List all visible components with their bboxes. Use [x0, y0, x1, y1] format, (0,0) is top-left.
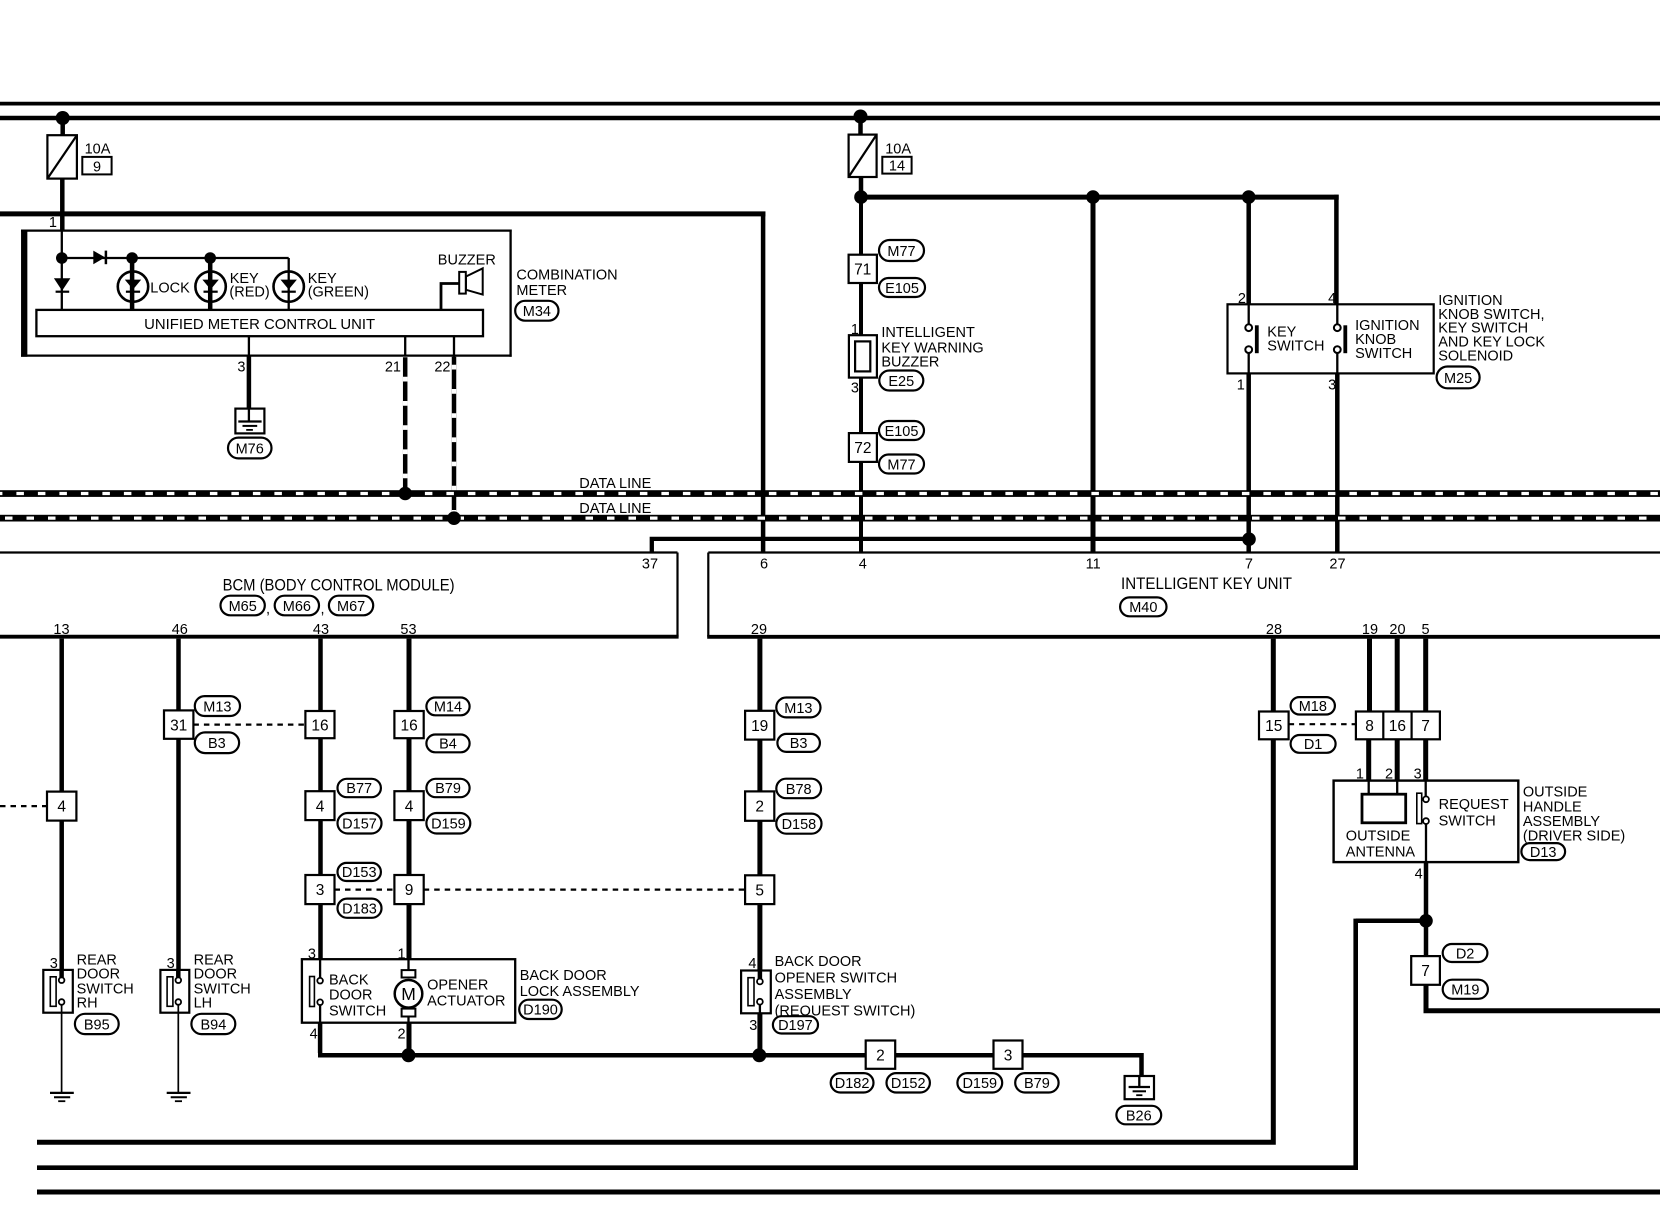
- wire stub left from junction: [1356, 919, 1426, 924]
- svg-text:ASSEMBLY: ASSEMBLY: [775, 987, 852, 1003]
- svg-text:28: 28: [1266, 622, 1282, 638]
- feed line to combination meter: [0, 211, 765, 216]
- svg-text:4: 4: [57, 799, 66, 816]
- connector 71: [849, 255, 877, 283]
- svg-text:B3: B3: [208, 736, 226, 752]
- LED KEY RED: [195, 258, 225, 311]
- svg-text:16: 16: [311, 717, 328, 734]
- svg-text:B78: B78: [786, 782, 812, 798]
- svg-text:37: 37: [642, 557, 658, 573]
- svg-text:ANTENNA: ANTENNA: [1346, 845, 1416, 861]
- svg-text:D2: D2: [1456, 946, 1475, 962]
- svg-text:D190: D190: [523, 1003, 558, 1019]
- connector oval D152: [887, 1073, 930, 1092]
- svg-text:6: 6: [760, 557, 768, 573]
- svg-text:SWITCH: SWITCH: [1267, 339, 1324, 355]
- connector oval E105 (lower): [879, 421, 924, 440]
- connector oval D153: [338, 863, 381, 881]
- svg-text:M77: M77: [887, 244, 915, 260]
- wire key unit pin 28 down and left to page edge: [37, 639, 1273, 1143]
- ignition knob switch contact: [1334, 304, 1347, 373]
- connector 4 (pin13 line): [47, 792, 76, 821]
- svg-text:D157: D157: [342, 817, 377, 833]
- connector 15: [1259, 712, 1289, 740]
- wire connector 7 to page right edge: [1426, 985, 1660, 1011]
- wire connector 8 to antenna pin 1: [1366, 739, 1371, 780]
- svg-text:SWITCH: SWITCH: [329, 1003, 386, 1019]
- label REAR DOOR SWITCH LH: [194, 953, 251, 1012]
- connector 4 (pin43 line): [305, 791, 334, 820]
- wire connector 7 to request switch pin 3: [1423, 739, 1428, 780]
- svg-text:M25: M25: [1444, 371, 1472, 387]
- svg-text:B3: B3: [790, 736, 808, 752]
- svg-text:71: 71: [854, 262, 871, 279]
- svg-text:2: 2: [755, 799, 764, 816]
- connector oval D183: [338, 899, 382, 918]
- connector oval E25: [879, 371, 923, 391]
- label REAR DOOR SWITCH RH: [77, 953, 134, 1012]
- svg-text:RH: RH: [77, 995, 98, 1011]
- wire key switch pin 1 down to key unit pin 7: [1246, 373, 1251, 552]
- connector oval D159: [426, 813, 470, 834]
- svg-text:ACTUATOR: ACTUATOR: [427, 993, 505, 1009]
- svg-text:BACK DOOR: BACK DOOR: [775, 954, 862, 970]
- svg-text:D197: D197: [778, 1018, 813, 1034]
- svg-text:22: 22: [434, 360, 450, 376]
- svg-text:DOOR: DOOR: [77, 967, 121, 983]
- connector 31: [164, 710, 193, 738]
- wire key unit pin 20 down: [1395, 639, 1400, 712]
- svg-text:OUTSIDE: OUTSIDE: [1346, 829, 1411, 845]
- svg-text:3: 3: [749, 1018, 757, 1034]
- svg-text:4: 4: [310, 1027, 318, 1043]
- connector oval B77: [338, 779, 381, 797]
- wire key unit pin 5 down: [1423, 639, 1428, 712]
- connector oval E105 (upper): [879, 278, 925, 297]
- wire pin 3 to ground M76: [247, 356, 252, 410]
- svg-text:5: 5: [1421, 622, 1429, 638]
- svg-text:D159: D159: [431, 817, 466, 833]
- wire branch corner down to ignition knob switch pin 4: [1334, 195, 1339, 305]
- fuse number box 9: [82, 157, 111, 175]
- svg-text:1: 1: [1237, 377, 1245, 393]
- connector oval M65: [221, 596, 265, 616]
- connector 3 (pin43 line): [305, 875, 334, 904]
- connector oval D1: [1291, 735, 1336, 753]
- svg-text:M40: M40: [1129, 600, 1157, 616]
- svg-text:B94: B94: [200, 1017, 226, 1033]
- wire bus to fuse 14: [858, 118, 863, 136]
- label INTELLIGENT KEY WARNING BUZZER: [881, 325, 983, 371]
- junction dot pin22 on data line 2: [447, 511, 461, 525]
- dashed link 3 to 9: [335, 888, 395, 890]
- data line 2: [0, 515, 1660, 522]
- connector oval D190: [519, 1000, 562, 1019]
- svg-text:43: 43: [313, 622, 329, 638]
- svg-text:D158: D158: [782, 817, 817, 833]
- wire lock assembly pin 4 down: [318, 1023, 323, 1053]
- wire BCM pin 46 down: [176, 639, 181, 970]
- ground (RH): [50, 1093, 74, 1101]
- svg-text:2: 2: [1238, 291, 1246, 307]
- connector oval M34: [515, 301, 558, 321]
- svg-text:M18: M18: [1299, 699, 1327, 715]
- svg-text:M13: M13: [203, 699, 231, 715]
- back door opener switch assembly: [741, 971, 771, 1014]
- svg-text:E105: E105: [885, 281, 919, 297]
- connector oval D13: [1521, 843, 1565, 861]
- label IGNITION KNOB SWITCH, KEY SWITCH AND KEY LOCK SOLENOID: [1438, 293, 1545, 365]
- svg-text:E25: E25: [888, 374, 914, 390]
- rear door switch LH: [160, 970, 189, 1013]
- svg-text:3: 3: [316, 882, 325, 899]
- svg-text:14: 14: [889, 159, 905, 175]
- svg-text:20: 20: [1389, 622, 1405, 638]
- svg-text:M19: M19: [1451, 983, 1479, 999]
- svg-text:46: 46: [172, 622, 188, 638]
- wire switch RH to ground: [61, 1005, 63, 1093]
- shielded wire pin 21 to data line 1: [403, 357, 408, 494]
- svg-text:29: 29: [751, 622, 767, 638]
- pin 3 wire (meter internal): [248, 336, 250, 357]
- svg-text:M65: M65: [229, 599, 257, 615]
- connector oval D197: [773, 1016, 818, 1034]
- svg-text:INTELLIGENT KEY UNIT: INTELLIGENT KEY UNIT: [1121, 574, 1292, 593]
- junction dot on bus at fuse 9: [56, 111, 70, 125]
- wire opener switch pin 3 down: [757, 1013, 762, 1055]
- svg-text:METER: METER: [516, 283, 567, 299]
- svg-text:19: 19: [1362, 622, 1378, 638]
- svg-text:15: 15: [1265, 718, 1282, 735]
- svg-text:8: 8: [1365, 718, 1374, 735]
- svg-text:SWITCH: SWITCH: [1439, 813, 1496, 829]
- connector 2 (ground run): [866, 1041, 896, 1069]
- connector oval D158: [776, 814, 821, 834]
- power bus line 1: [0, 102, 1660, 106]
- wire lock assembly pin 2 down: [407, 1023, 412, 1056]
- svg-text:UNIFIED METER CONTROL UNIT: UNIFIED METER CONTROL UNIT: [144, 317, 375, 333]
- connector oval D157: [338, 813, 382, 834]
- svg-text:M14: M14: [434, 700, 462, 716]
- label OUTSIDE HANDLE ASSEMBLY (DRIVER SIDE): [1523, 784, 1625, 844]
- wire down-left to page edge (lower): [37, 919, 1356, 1168]
- svg-text:4: 4: [1415, 867, 1423, 883]
- connector oval M76: [228, 438, 272, 459]
- request switch contact: [1417, 781, 1429, 863]
- zener diode down at x62: [54, 258, 71, 311]
- connector 2 (pin29 line): [745, 791, 774, 820]
- svg-text:BACK: BACK: [329, 972, 369, 988]
- wire fuse 9 to feed line: [60, 179, 65, 214]
- svg-text:D153: D153: [342, 865, 377, 881]
- ground M76: [235, 409, 264, 434]
- svg-text:(GREEN): (GREEN): [308, 285, 369, 301]
- svg-text:LOCK: LOCK: [150, 281, 190, 297]
- svg-text:9: 9: [93, 159, 101, 175]
- svg-text:D152: D152: [891, 1076, 926, 1092]
- LED LOCK: [118, 258, 148, 311]
- wire key unit pin 29 down: [757, 639, 762, 971]
- pin 22 wire (meter internal): [453, 336, 455, 357]
- svg-text:BACK DOOR: BACK DOOR: [520, 968, 607, 984]
- wire BCM pin 43 down: [318, 639, 323, 960]
- unified meter control unit bar: [36, 310, 483, 336]
- svg-text:B77: B77: [346, 781, 372, 797]
- svg-text:B4: B4: [439, 737, 457, 753]
- junction dot above LOCK LED: [126, 252, 138, 264]
- wire BCM pin 53 down: [407, 639, 412, 960]
- svg-text:INTELLIGENT: INTELLIGENT: [881, 325, 975, 341]
- dashed link 9 to 5: [424, 888, 745, 890]
- connector oval M14: [426, 698, 469, 716]
- junction dot pin 2 ground run: [402, 1048, 416, 1062]
- LED KEY GREEN: [274, 258, 304, 311]
- connector oval B26: [1116, 1106, 1161, 1125]
- svg-text:DATA LINE: DATA LINE: [579, 501, 651, 517]
- svg-text:1: 1: [49, 215, 57, 231]
- svg-text:DATA LINE: DATA LINE: [579, 476, 651, 492]
- svg-text:OPENER SWITCH: OPENER SWITCH: [775, 971, 897, 987]
- wire branch to key switch pin 2: [1246, 197, 1251, 304]
- wire feed line down to intelligent key unit pin 6: [761, 212, 766, 553]
- connector 9: [394, 875, 423, 904]
- bottom rail to other page: [37, 1190, 1660, 1195]
- wire ground run down to B26: [1139, 1053, 1144, 1077]
- svg-text:9: 9: [405, 882, 414, 899]
- label COMBINATION METER: [516, 268, 617, 299]
- svg-text:3: 3: [237, 360, 245, 376]
- junction dot pin21 on data line 1: [398, 487, 412, 501]
- svg-text:10A: 10A: [85, 141, 111, 157]
- connector oval M40: [1120, 597, 1166, 616]
- ground B26: [1125, 1076, 1154, 1099]
- svg-text:DOOR: DOOR: [329, 988, 373, 1004]
- svg-text:7: 7: [1245, 557, 1253, 573]
- label KEY SWITCH: [1267, 325, 1324, 355]
- connector oval D2: [1443, 944, 1488, 962]
- label BACK DOOR OPENER SWITCH ASSEMBLY (REQUEST SWITCH): [775, 954, 916, 1019]
- svg-text:3: 3: [1004, 1047, 1013, 1064]
- dashed link 31 to 16: [193, 723, 305, 725]
- label OPENER ACTUATOR: [427, 977, 505, 1009]
- svg-text:OPENER: OPENER: [427, 977, 488, 993]
- wire into antenna (pin1): [1368, 781, 1370, 795]
- intelligent key unit box: [707, 553, 1660, 637]
- svg-text:LOCK ASSEMBLY: LOCK ASSEMBLY: [520, 984, 640, 1000]
- svg-text:D13: D13: [1530, 845, 1557, 861]
- svg-text:BUZZER: BUZZER: [881, 355, 939, 371]
- connector 72: [849, 433, 877, 462]
- svg-text:M67: M67: [337, 599, 365, 615]
- svg-text:M34: M34: [523, 304, 551, 320]
- svg-text:M13: M13: [784, 701, 812, 717]
- wire ignition knob pin 3 down to key unit pin 27: [1335, 373, 1340, 552]
- svg-text:4: 4: [1328, 291, 1336, 307]
- connector 4 (pin53 line): [394, 791, 423, 820]
- svg-text:M: M: [401, 984, 416, 1004]
- ground wire run along y1055: [318, 1053, 1142, 1058]
- pin 21 wire (meter internal): [404, 336, 406, 357]
- svg-text:4: 4: [405, 798, 414, 815]
- svg-text:,: ,: [321, 602, 325, 618]
- junction dot on bus at fuse 14: [854, 110, 868, 124]
- label BACK DOOR LOCK ASSEMBLY: [520, 968, 640, 1000]
- svg-text:DOOR: DOOR: [194, 967, 238, 983]
- connector oval D182: [831, 1073, 874, 1092]
- svg-text:,: ,: [266, 602, 270, 618]
- shielded wire pin 22 to data line 2: [452, 357, 457, 518]
- junction dot at x1248.7: [1242, 190, 1256, 204]
- svg-text:4: 4: [859, 557, 867, 573]
- back door switch contact: [310, 959, 323, 1023]
- junction dot below handle assembly: [1419, 914, 1433, 928]
- label OUTSIDE ANTENNA: [1346, 829, 1416, 861]
- svg-text:D159: D159: [962, 1076, 997, 1092]
- wire pin1 inside meter: [61, 230, 63, 258]
- connector 16 (pin43 line): [305, 711, 334, 738]
- dashed link 15 to 8: [1289, 723, 1356, 725]
- svg-text:(RED): (RED): [229, 285, 269, 301]
- wire handle pin 4 down to connector 7: [1424, 862, 1429, 956]
- wire key unit pin 19 down: [1367, 639, 1372, 712]
- svg-text:SOLENOID: SOLENOID: [1438, 349, 1513, 365]
- connector oval M66: [275, 596, 319, 616]
- connector oval D159 (ground run): [957, 1073, 1002, 1092]
- junction dot at x861: [854, 190, 868, 204]
- connector 7 (D2/M19): [1411, 956, 1440, 985]
- junction dot pin 3 ground run: [752, 1048, 766, 1062]
- connector 3 (ground run): [994, 1041, 1023, 1069]
- ground (LH): [167, 1093, 191, 1101]
- connector oval M19: [1443, 980, 1488, 999]
- svg-text:LH: LH: [194, 995, 213, 1011]
- connector oval B78: [776, 779, 821, 799]
- svg-text:5: 5: [755, 882, 764, 899]
- wire bus to fuse 9: [60, 118, 65, 136]
- diode D (series, pointing right): [93, 251, 106, 265]
- svg-text:7: 7: [1421, 963, 1430, 980]
- wire into antenna (pin2): [1396, 781, 1398, 795]
- connector oval M67: [329, 596, 373, 616]
- wire x861 down to intelligent key unit pin 4: [859, 197, 863, 552]
- svg-text:D183: D183: [342, 902, 377, 918]
- svg-text:BCM (BODY CONTROL MODULE): BCM (BODY CONTROL MODULE): [223, 576, 455, 595]
- svg-text:21: 21: [385, 360, 401, 376]
- BCM box: [0, 553, 679, 637]
- rear door switch RH: [43, 970, 73, 1013]
- connector oval B4: [426, 735, 469, 753]
- svg-text:3: 3: [1328, 377, 1336, 393]
- connector oval M77 (upper): [879, 240, 924, 261]
- connector 16 (pin53 line): [394, 711, 423, 738]
- svg-text:D182: D182: [835, 1076, 870, 1092]
- fuse 14 (10A): [849, 135, 877, 177]
- buzzer wire: [441, 284, 459, 312]
- buzzer symbol: [459, 268, 483, 294]
- svg-text:53: 53: [400, 622, 416, 638]
- combination meter box M34: [21, 230, 512, 357]
- svg-text:REQUEST: REQUEST: [1439, 797, 1509, 813]
- label KEY (RED): [229, 271, 269, 301]
- internal wire across LED tops: [62, 257, 289, 259]
- svg-text:2: 2: [876, 1047, 885, 1064]
- connector 5: [745, 875, 774, 904]
- wire connector 16 to antenna pin 2: [1395, 739, 1400, 780]
- svg-text:B79: B79: [1024, 1076, 1050, 1092]
- svg-text:11: 11: [1086, 557, 1101, 573]
- svg-text:19: 19: [751, 718, 768, 735]
- label REQUEST SWITCH: [1439, 797, 1509, 830]
- wire fuse 14 to branch node: [859, 177, 864, 197]
- branch feed line (ignition): [861, 195, 1339, 200]
- svg-text:16: 16: [1389, 718, 1406, 735]
- svg-text:M77: M77: [887, 457, 915, 473]
- junction dot at x1093: [1086, 190, 1100, 204]
- svg-text:10A: 10A: [885, 141, 911, 157]
- svg-text:B95: B95: [84, 1017, 110, 1033]
- connector oval B3: [195, 732, 239, 753]
- outside antenna element: [1362, 794, 1406, 823]
- svg-text:M66: M66: [283, 599, 311, 615]
- svg-text:HANDLE: HANDLE: [1523, 800, 1582, 816]
- wire BCM pin 13 down: [59, 639, 64, 970]
- connector oval B95: [75, 1014, 119, 1034]
- junction node at diode branch: [56, 252, 68, 264]
- fuse 9 (10A): [47, 135, 77, 178]
- back door lock assembly box D190: [302, 959, 515, 1023]
- svg-text:16: 16: [400, 717, 417, 734]
- opener actuator motor: [395, 959, 423, 1023]
- key switch contact: [1245, 304, 1258, 373]
- power bus line 2: [0, 116, 1660, 121]
- label BACK DOOR SWITCH: [329, 972, 386, 1019]
- connector row 8 16 7: [1356, 712, 1440, 740]
- ignition knob switch / key switch box M25: [1228, 304, 1434, 373]
- svg-text:BUZZER: BUZZER: [438, 253, 496, 269]
- connector oval B94: [191, 1014, 235, 1034]
- connector oval B79: [426, 779, 469, 797]
- connector oval M18: [1291, 697, 1335, 715]
- wire pin 1 into combination meter: [60, 214, 65, 231]
- svg-text:31: 31: [170, 717, 187, 734]
- wire switch LH to ground: [177, 1005, 179, 1093]
- dashed spur into connector 4: [0, 805, 47, 807]
- svg-text:27: 27: [1329, 557, 1345, 573]
- svg-text:E105: E105: [885, 424, 919, 440]
- intelligent key warning buzzer: [849, 335, 877, 377]
- svg-text:B79: B79: [435, 781, 461, 797]
- data line 1: [0, 490, 1660, 497]
- junction dot above KEY RED LED: [204, 252, 216, 264]
- svg-text:SWITCH: SWITCH: [1355, 346, 1412, 362]
- label IGNITION KNOB SWITCH: [1355, 318, 1419, 362]
- label KEY (GREEN): [308, 271, 369, 301]
- svg-text:4: 4: [316, 798, 325, 815]
- connector oval M13 (pin29): [776, 698, 820, 718]
- svg-text:13: 13: [53, 622, 69, 638]
- svg-text:72: 72: [854, 440, 871, 457]
- connector 19: [745, 711, 774, 740]
- wire BCM pin 37 to pin-7 node: [652, 539, 1249, 553]
- svg-text:3: 3: [851, 380, 859, 396]
- connector oval B3 (pin29): [777, 734, 820, 752]
- connector oval M77 (lower): [879, 455, 924, 474]
- connector oval M13: [195, 696, 240, 716]
- svg-text:7: 7: [1421, 718, 1430, 735]
- svg-text:OUTSIDE: OUTSIDE: [1523, 784, 1588, 800]
- svg-text:COMBINATION: COMBINATION: [516, 268, 617, 284]
- connector oval B79 (ground run): [1015, 1073, 1058, 1092]
